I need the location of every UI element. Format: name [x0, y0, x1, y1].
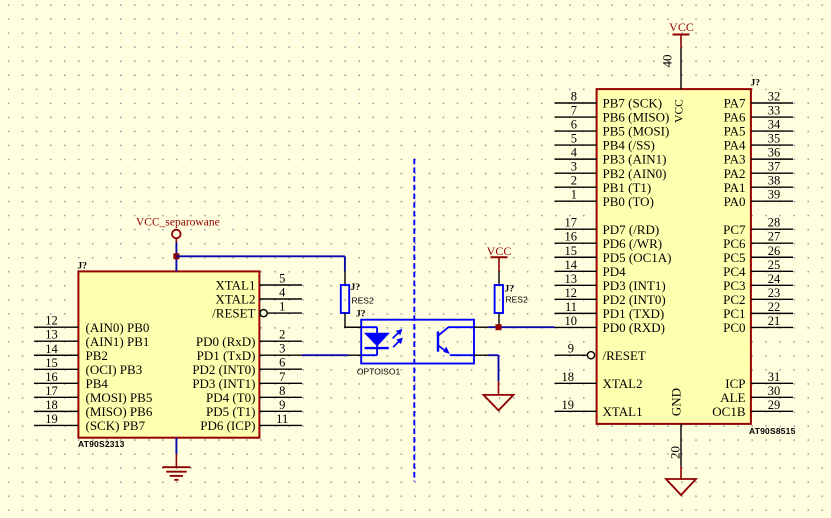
svg-text:12: 12 — [565, 286, 578, 300]
svg-text:8: 8 — [571, 90, 577, 104]
svg-text:AT90S2313: AT90S2313 — [78, 439, 125, 449]
svg-text:17: 17 — [45, 384, 58, 398]
svg-text:PB1 (T1): PB1 (T1) — [603, 180, 652, 195]
optocoupler pin emitter stub — [474, 354, 488, 356]
svg-text:6: 6 — [279, 356, 285, 370]
svg-text:XTAL2: XTAL2 — [603, 376, 643, 391]
svg-text:PD4 (T0): PD4 (T0) — [206, 390, 255, 405]
wire U? GND pin to earth ground — [175, 438, 177, 468]
svg-text:PD6 (/WR): PD6 (/WR) — [603, 236, 663, 251]
svg-text:(AIN0) PB0: (AIN0) PB0 — [86, 320, 150, 335]
junction at VCC_separowane node — [173, 253, 179, 259]
svg-text:36: 36 — [768, 146, 781, 160]
U? pin 26 PC5 — [723, 244, 793, 265]
optocoupler light arrow 1 — [393, 329, 403, 339]
svg-text:(MISO) PB6: (MISO) PB6 — [86, 404, 153, 419]
svg-text:PC2: PC2 — [723, 292, 745, 307]
svg-text:J?: J? — [351, 283, 361, 293]
svg-text:J?: J? — [78, 262, 88, 272]
svg-text:XTAL1: XTAL1 — [215, 278, 255, 293]
optocoupler pin collector stub — [474, 326, 488, 328]
U? pin 11 PD1 (TXD) — [555, 300, 665, 321]
svg-text:37: 37 — [768, 160, 781, 174]
svg-text:13: 13 — [565, 272, 578, 286]
U? pin 12 PD2 (INT0) — [555, 286, 666, 307]
svg-text:25: 25 — [768, 258, 781, 272]
U? pin 37 PA2 — [724, 160, 793, 181]
svg-text:PC5: PC5 — [723, 250, 745, 265]
svg-text:PA0: PA0 — [724, 194, 746, 209]
earth ground symbol below AT90S2313 — [162, 467, 190, 480]
svg-text:7: 7 — [571, 104, 577, 118]
U? pin 19 XTAL1 — [555, 398, 643, 419]
svg-text:15: 15 — [565, 244, 578, 258]
svg-text:PA1: PA1 — [724, 180, 746, 195]
svg-text:6: 6 — [571, 118, 577, 132]
wire optocoupler collector to U? pin 10 — [488, 326, 554, 328]
svg-text:38: 38 — [768, 174, 781, 188]
svg-text:3: 3 — [279, 342, 285, 356]
svg-text:17: 17 — [565, 216, 578, 230]
svg-text:5: 5 — [571, 132, 577, 146]
U? pin 38 PA1 — [724, 174, 793, 195]
svg-text:2: 2 — [279, 328, 285, 342]
optocoupler phototransistor base bar — [437, 331, 439, 351]
svg-text:19: 19 — [45, 412, 58, 426]
IC U? AT90S2313 body — [78, 271, 259, 437]
U? pin 6 PD2 (INT0) — [192, 356, 302, 377]
U? pin 34 PA5 — [724, 118, 793, 139]
U? pin 32 PA7 — [724, 90, 793, 111]
svg-text:28: 28 — [768, 216, 781, 230]
U? pin 18 XTAL2 — [555, 370, 643, 391]
U? pin 11 PD6 (ICP) — [200, 412, 302, 433]
optocoupler pin cathode stub — [347, 354, 361, 356]
resistor R? RES2 right — [495, 271, 503, 328]
svg-text:PD1 (TXD): PD1 (TXD) — [603, 306, 665, 321]
svg-text:OPTOISO1: OPTOISO1 — [357, 366, 401, 376]
optocoupler LED triangle — [365, 333, 389, 345]
optocoupler LED cathode internal lead — [361, 346, 377, 356]
svg-text:PB2: PB2 — [86, 348, 108, 363]
svg-text:RES2: RES2 — [352, 296, 374, 306]
svg-text:PD0 (RXD): PD0 (RXD) — [603, 320, 665, 335]
svg-text:XTAL1: XTAL1 — [603, 404, 643, 419]
resistor R? RES2 left — [341, 271, 349, 328]
optocoupler phototransistor emitter with arrow — [438, 345, 474, 355]
U? pin 8 PD4 (T0) — [206, 384, 302, 405]
U? pin 16 PD6 (/WR) — [555, 230, 663, 251]
svg-text:PB4: PB4 — [86, 376, 109, 391]
junction at collector/R? node — [496, 324, 502, 330]
U? pin 9 /RESET — [555, 342, 646, 363]
svg-text:10: 10 — [565, 314, 578, 328]
optocoupler phototransistor collector — [438, 327, 474, 336]
svg-text:PB4 (/SS): PB4 (/SS) — [603, 138, 655, 153]
U? pin 36 PA3 — [724, 146, 793, 167]
svg-text:5: 5 — [279, 272, 285, 286]
svg-text:J?: J? — [505, 285, 515, 295]
svg-text:/RESET: /RESET — [603, 348, 646, 363]
optocoupler light arrow 2 — [393, 338, 403, 348]
svg-text:12: 12 — [45, 314, 58, 328]
U? pin 33 PA6 — [724, 104, 793, 125]
optocoupler pin anode stub — [344, 326, 361, 328]
svg-text:PB0 (TO): PB0 (TO) — [603, 194, 654, 209]
svg-text:VCC_separowane: VCC_separowane — [136, 217, 220, 229]
optocoupler LED cathode bar — [365, 347, 389, 349]
svg-text:29: 29 — [768, 398, 781, 412]
U? pin 17 PD7 (/RD) — [555, 216, 660, 237]
U? pin 22 PC1 — [723, 300, 793, 321]
U? pin 3 PB2 (AIN0) — [555, 160, 667, 181]
optocoupler LED anode internal lead — [361, 327, 377, 334]
svg-text:PD7 (/RD): PD7 (/RD) — [603, 222, 660, 237]
svg-text:13: 13 — [45, 328, 58, 342]
svg-text:PA2: PA2 — [724, 166, 746, 181]
svg-text:PD3 (INT1): PD3 (INT1) — [603, 278, 666, 293]
svg-text:ICP: ICP — [725, 376, 745, 391]
svg-text:9: 9 — [279, 398, 285, 412]
U? pin 39 PA0 — [724, 188, 793, 209]
isolation boundary dashed line — [413, 159, 415, 482]
svg-text:PC4: PC4 — [723, 264, 746, 279]
svg-text:7: 7 — [279, 370, 285, 384]
svg-text:4: 4 — [279, 286, 286, 300]
U? pin 40 VCC top — [660, 48, 682, 90]
svg-text:/RESET: /RESET — [212, 306, 255, 321]
svg-text:21: 21 — [768, 314, 781, 328]
svg-text:1: 1 — [279, 300, 285, 314]
svg-text:18: 18 — [45, 398, 58, 412]
svg-text:24: 24 — [768, 272, 781, 286]
svg-text:23: 23 — [768, 286, 781, 300]
svg-text:16: 16 — [45, 370, 58, 384]
svg-text:11: 11 — [565, 300, 577, 314]
U? pin 16 PB4 — [34, 370, 108, 391]
U? pin 24 PC3 — [723, 272, 793, 293]
ground power port below U? — [666, 466, 696, 495]
U? pin 30 ALE — [720, 384, 793, 405]
wire optocoupler emitter to ground — [488, 355, 498, 395]
svg-text:PD6 (ICP): PD6 (ICP) — [200, 418, 255, 433]
svg-text:19: 19 — [562, 398, 575, 412]
U? pin 15 PD5 (OC1A) — [555, 244, 672, 265]
svg-text:PA4: PA4 — [724, 138, 746, 153]
wire U? pin 3 PD1 to optocoupler cathode — [302, 354, 348, 356]
power port VCC_separowane — [136, 217, 220, 244]
wire R? bottom to optocoupler anode pin — [344, 326, 361, 328]
svg-text:PD5 (T1): PD5 (T1) — [206, 404, 255, 419]
svg-text:PA5: PA5 — [724, 124, 746, 139]
svg-text:RES2: RES2 — [506, 294, 528, 304]
svg-text:PD2 (INT0): PD2 (INT0) — [603, 292, 666, 307]
svg-text:PD5 (OC1A): PD5 (OC1A) — [603, 250, 672, 265]
svg-text:16: 16 — [565, 230, 578, 244]
power port VCC above right RES2 — [487, 244, 512, 271]
wire VCC_separowane horizontal to R? — [176, 255, 345, 257]
svg-text:J?: J? — [356, 309, 366, 319]
svg-text:OC1B: OC1B — [712, 404, 746, 419]
svg-text:31: 31 — [768, 370, 781, 384]
svg-text:PA6: PA6 — [724, 110, 746, 125]
svg-text:(AIN1) PB1: (AIN1) PB1 — [86, 334, 150, 349]
U? pin 7 PD3 (INT1) — [192, 370, 302, 391]
svg-text:PD4: PD4 — [603, 264, 627, 279]
U? pin 25 PC4 — [723, 258, 793, 279]
svg-text:XTAL2: XTAL2 — [215, 292, 255, 307]
svg-text:(MOSI) PB5: (MOSI) PB5 — [86, 390, 153, 405]
svg-text:20: 20 — [668, 446, 683, 459]
U? pin 8 PB7 (SCK) — [555, 90, 663, 111]
svg-text:4: 4 — [571, 146, 578, 160]
svg-text:(SCK) PB7: (SCK) PB7 — [86, 418, 146, 433]
U? pin 3 PD1 (TxD) — [197, 342, 302, 363]
U? pin 15 (OCI) PB3 — [34, 356, 142, 377]
svg-text:J?: J? — [751, 79, 761, 89]
svg-text:8: 8 — [279, 384, 285, 398]
svg-text:PC3: PC3 — [723, 278, 745, 293]
svg-text:PB3 (AIN1): PB3 (AIN1) — [603, 152, 667, 167]
svg-text:PC0: PC0 — [723, 320, 745, 335]
U? pin 23 PC2 — [723, 286, 793, 307]
wire down to R? top — [344, 256, 346, 271]
U? pin 14 PD4 — [555, 258, 627, 279]
svg-text:3: 3 — [571, 160, 577, 174]
U? pin 29 OC1B — [712, 398, 793, 419]
svg-text:39: 39 — [768, 188, 781, 202]
svg-text:PC6: PC6 — [723, 236, 746, 251]
svg-text:11: 11 — [276, 412, 288, 426]
U? pin 1 PB0 (TO) — [555, 188, 654, 209]
svg-text:34: 34 — [768, 118, 781, 132]
U? pin 5 PB4 (/SS) — [555, 132, 655, 153]
svg-text:ALE: ALE — [720, 390, 745, 405]
svg-text:PB2 (AIN0): PB2 (AIN0) — [603, 166, 667, 181]
svg-text:PB6 (MISO): PB6 (MISO) — [603, 110, 670, 125]
svg-text:PD3 (INT1): PD3 (INT1) — [192, 376, 255, 391]
svg-text:1: 1 — [571, 188, 577, 202]
U? pin 12 (AIN0) PB0 — [34, 314, 149, 335]
ground power port below optocoupler — [484, 395, 514, 411]
U? pin 35 PA4 — [724, 132, 793, 153]
U? pin 31 ICP — [725, 370, 793, 391]
U? pin 2 PB1 (T1) — [555, 174, 652, 195]
svg-text:15: 15 — [45, 356, 58, 370]
U? pin 19 (SCK) PB7 — [34, 412, 146, 433]
svg-text:9: 9 — [568, 342, 574, 356]
svg-text:VCC: VCC — [673, 99, 685, 123]
U? pin 5 XTAL1 — [215, 272, 302, 293]
svg-text:27: 27 — [768, 230, 781, 244]
svg-text:18: 18 — [562, 370, 575, 384]
svg-text:(OCI) PB3: (OCI) PB3 — [86, 362, 143, 377]
IC U? AT90S8515 body — [597, 89, 751, 424]
svg-text:30: 30 — [768, 384, 781, 398]
svg-text:PA3: PA3 — [724, 152, 746, 167]
svg-text:GND: GND — [669, 388, 684, 416]
power port VCC above U? — [669, 20, 694, 48]
svg-text:PD2 (INT0): PD2 (INT0) — [192, 362, 255, 377]
svg-text:PC7: PC7 — [723, 222, 746, 237]
U? pin 10 PD0 (RXD) — [555, 314, 665, 335]
svg-text:PD1 (TxD): PD1 (TxD) — [197, 348, 256, 363]
svg-text:26: 26 — [768, 244, 781, 258]
U? pin 17 (MOSI) PB5 — [34, 384, 152, 405]
svg-text:35: 35 — [768, 132, 781, 146]
svg-text:AT90S8515: AT90S8515 — [749, 426, 796, 436]
svg-text:PC1: PC1 — [723, 306, 745, 321]
svg-text:14: 14 — [45, 342, 58, 356]
optocoupler U? OPTOISO1 body — [361, 320, 474, 364]
svg-text:PD0 (RxD): PD0 (RxD) — [196, 334, 256, 349]
svg-text:40: 40 — [660, 55, 675, 68]
svg-text:2: 2 — [571, 174, 577, 188]
svg-text:PB5 (MOSI): PB5 (MOSI) — [603, 124, 670, 139]
U? pin 9 PD5 (T1) — [206, 398, 302, 419]
U? pin 20 GND bottom — [668, 424, 683, 466]
svg-text:14: 14 — [565, 258, 578, 272]
svg-text:PA7: PA7 — [724, 96, 746, 111]
U? pin 18 (MISO) PB6 — [34, 398, 153, 419]
svg-text:22: 22 — [768, 300, 781, 314]
U? pin 6 PB5 (MOSI) — [555, 118, 670, 139]
U? pin 2 PD0 (RxD) — [196, 328, 302, 349]
svg-text:VCC: VCC — [487, 244, 512, 258]
wire VCC_separowane vertical to U? top — [175, 243, 177, 272]
U? pin 28 PC7 — [723, 216, 793, 237]
svg-text:32: 32 — [768, 90, 781, 104]
svg-text:PB7 (SCK): PB7 (SCK) — [603, 96, 663, 111]
svg-text:33: 33 — [768, 104, 781, 118]
U? pin 7 PB6 (MISO) — [555, 104, 670, 125]
U? pin 27 PC6 — [723, 230, 793, 251]
U? pin 4 PB3 (AIN1) — [555, 146, 667, 167]
U? pin 21 PC0 — [723, 314, 793, 335]
U? pin 14 PB2 — [34, 342, 108, 363]
U? pin 1 /RESET — [212, 300, 302, 321]
svg-text:VCC: VCC — [669, 20, 694, 34]
U? pin 13 (AIN1) PB1 — [34, 328, 149, 349]
U? pin 13 PD3 (INT1) — [555, 272, 666, 293]
U? pin 4 XTAL2 — [215, 286, 302, 307]
